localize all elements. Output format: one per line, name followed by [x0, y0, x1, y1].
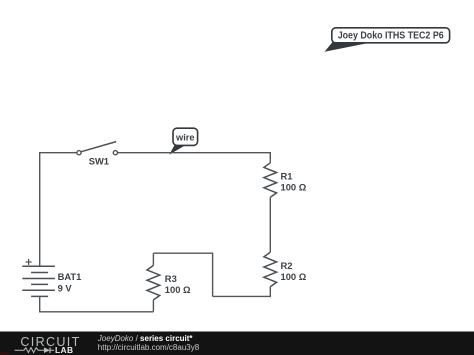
- svg-text:Joey Doko ITHS TEC2 P6: Joey Doko ITHS TEC2 P6: [338, 31, 444, 42]
- BAT1 long plate 3: [22, 289, 55, 291]
- svg-text:http://circuitlab.com/c8au3y8: http://circuitlab.com/c8au3y8: [98, 343, 200, 352]
- battery BAT1: [22, 259, 81, 296]
- wire: battery + terminal up the left side: [39, 153, 41, 267]
- svg-text:wire: wire: [175, 132, 195, 142]
- resistor R3: [147, 265, 191, 300]
- SW1 blade: [81, 142, 116, 152]
- CircuitLab logo diode symbol: [44, 347, 54, 353]
- BAT1 short plate 1: [31, 272, 48, 274]
- wire: top rail, left corner to SW1 left terminal: [39, 152, 77, 154]
- switch SW1: [77, 142, 118, 167]
- svg-text:SW1: SW1: [89, 156, 109, 167]
- BAT1 long plate 2: [22, 278, 55, 280]
- svg-text:100 Ω: 100 Ω: [165, 284, 191, 295]
- comment callout "Joey Doko ITHS TEC2 P6": [325, 28, 450, 52]
- wire: middle riser up then left toward R3 top: [153, 253, 212, 296]
- SW1 left terminal: [77, 151, 81, 155]
- BAT1 short plate 2: [31, 283, 48, 285]
- wire: R3 top lead: [152, 253, 154, 265]
- wire: R3 bottom lead: [152, 300, 154, 312]
- footer bar: [0, 332, 474, 355]
- svg-text:BAT1: BAT1: [58, 271, 82, 282]
- resistor R1: [264, 163, 307, 198]
- wire: top-right corner down into R1 top lead: [269, 152, 271, 163]
- BAT1 long plate 1 (+): [22, 265, 55, 267]
- wire: R1 bottom to R2 top: [269, 197, 271, 252]
- svg-text:R3: R3: [165, 273, 177, 284]
- comment callout "wire" pointing at top wire: [169, 128, 197, 154]
- R2 zigzag body: [264, 252, 277, 287]
- R3 zigzag body: [147, 265, 160, 300]
- svg-text:9 V: 9 V: [58, 283, 73, 294]
- CircuitLab logo trace with resistor zigzag: [15, 348, 45, 353]
- BAT1 plus polarity mark: [26, 261, 32, 263]
- resistor R2: [264, 252, 307, 287]
- wire: top rail, SW1 right terminal to top-right corner: [117, 152, 270, 154]
- R1 zigzag body: [264, 163, 277, 198]
- svg-text:R2: R2: [281, 260, 293, 271]
- BAT1 short plate 3 (-): [31, 295, 48, 297]
- svg-text:100 Ω: 100 Ω: [281, 182, 307, 193]
- SW1 right terminal: [113, 151, 117, 155]
- svg-text:100 Ω: 100 Ω: [281, 271, 307, 282]
- svg-text:LAB: LAB: [55, 345, 73, 355]
- svg-text:JoeyDoko / series circuit*: JoeyDoko / series circuit*: [97, 334, 194, 343]
- wire: bottom rail back to battery - terminal: [40, 296, 154, 311]
- wire: R2 bottom lead and run left to middle riser: [213, 287, 271, 297]
- svg-text:R1: R1: [281, 171, 293, 182]
